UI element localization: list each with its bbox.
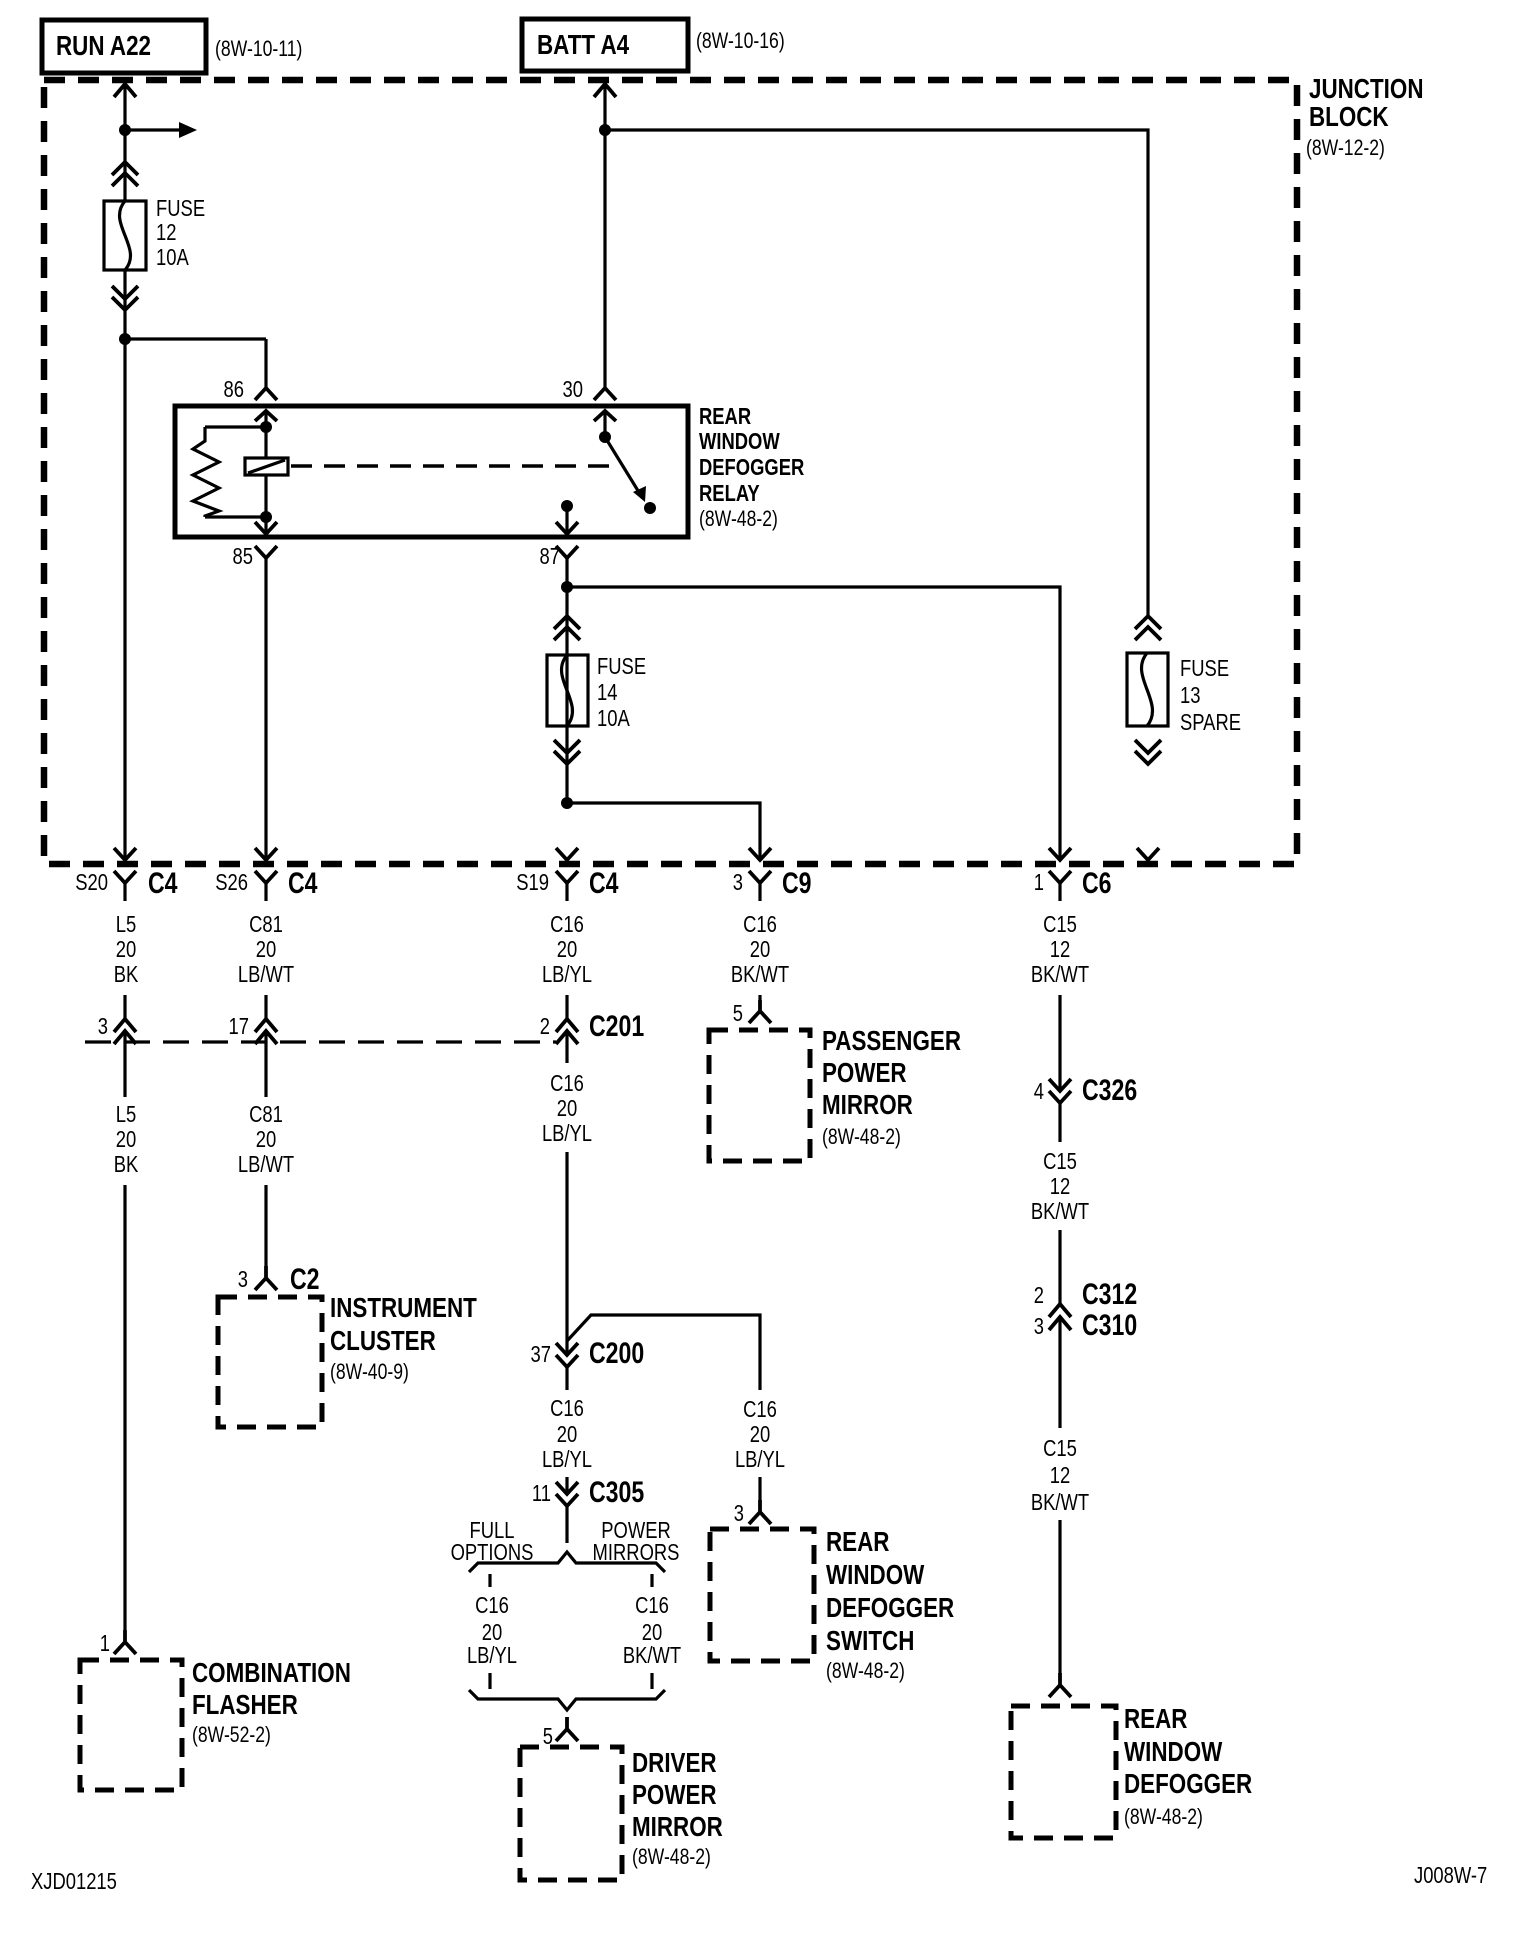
component box REAR WINDOW DEFOGGER SWITCH <box>710 1526 954 1683</box>
svg-text:C15: C15 <box>1043 911 1077 937</box>
svg-text:C15: C15 <box>1043 1148 1077 1174</box>
relay coil symbol <box>245 427 288 517</box>
connector C201 dashed interface line <box>85 1040 556 1043</box>
node fuse 12 output splice <box>119 333 131 345</box>
wire stub full options lower <box>488 1673 491 1689</box>
svg-text:85: 85 <box>233 543 254 569</box>
svg-text:(8W-40-9): (8W-40-9) <box>330 1359 409 1384</box>
svg-text:20: 20 <box>557 1095 578 1121</box>
svg-text:20: 20 <box>256 936 277 962</box>
svg-text:FLASHER: FLASHER <box>192 1689 298 1720</box>
wire stub full options upper <box>488 1574 491 1587</box>
svg-text:BK/WT: BK/WT <box>623 1642 681 1668</box>
connector C201 pin 2 column 3 <box>540 995 644 1063</box>
svg-text:LB/YL: LB/YL <box>542 1446 592 1472</box>
svg-text:C15: C15 <box>1043 1435 1077 1461</box>
feed box RUN A22 <box>42 20 302 73</box>
wire column 1 to combination flasher <box>123 1185 126 1630</box>
svg-text:2: 2 <box>540 1013 550 1039</box>
svg-text:C16: C16 <box>743 1396 777 1422</box>
wire label C16 20 LB/YL switch column <box>735 1396 785 1472</box>
relay switch arm <box>599 431 656 514</box>
wire column 5 to C312 <box>1058 1230 1061 1304</box>
svg-text:OPTIONS: OPTIONS <box>451 1539 534 1565</box>
wire column 5 to rear window defogger <box>1058 1520 1061 1673</box>
connector 5 at passenger power mirror <box>733 995 771 1026</box>
svg-text:BATT A4: BATT A4 <box>537 29 629 60</box>
wire label C16 20 LB/YL below C200 <box>542 1395 592 1472</box>
wire label C16 20 LB/YL column 3 <box>542 911 592 987</box>
wire option merge brace lower <box>469 1690 665 1710</box>
svg-text:(8W-10-16): (8W-10-16) <box>696 28 785 53</box>
connector chevrons above fuse 12 <box>112 162 138 186</box>
svg-text:10A: 10A <box>156 244 189 270</box>
svg-text:12: 12 <box>1050 936 1071 962</box>
svg-text:C6: C6 <box>1082 867 1112 900</box>
node fuse 14 output splice to C9 <box>561 797 760 860</box>
svg-text:12: 12 <box>1050 1462 1071 1488</box>
svg-text:J008W-7: J008W-7 <box>1414 1862 1487 1888</box>
svg-text:DRIVER: DRIVER <box>632 1747 717 1778</box>
relay coil resistor <box>193 427 266 517</box>
svg-text:C16: C16 <box>743 911 777 937</box>
svg-text:BK/WT: BK/WT <box>1031 1198 1089 1224</box>
svg-text:(8W-10-11): (8W-10-11) <box>215 36 302 61</box>
svg-text:C201: C201 <box>589 1010 644 1043</box>
connector C326 pin 4 <box>1034 1074 1137 1142</box>
svg-text:13: 13 <box>1180 682 1201 708</box>
pin 86 connector <box>224 376 278 427</box>
wire BATT splice to fuse 13 column <box>605 130 1148 615</box>
svg-text:INSTRUMENT: INSTRUMENT <box>330 1292 477 1323</box>
svg-text:LB/WT: LB/WT <box>238 961 294 987</box>
svg-text:3: 3 <box>734 1500 744 1526</box>
svg-text:C4: C4 <box>148 867 178 900</box>
wire label C16 20 LB/YL column 3 lower <box>542 1070 592 1146</box>
svg-text:FUSE: FUSE <box>597 653 646 679</box>
svg-text:POWER: POWER <box>822 1057 907 1088</box>
wire column 2 to instrument cluster <box>264 1185 267 1266</box>
svg-text:C310: C310 <box>1082 1309 1137 1342</box>
svg-text:L5: L5 <box>116 1101 137 1127</box>
svg-text:MIRRORS: MIRRORS <box>593 1539 680 1565</box>
connector S20 C4 at block edge <box>75 848 178 901</box>
svg-text:DEFOGGER: DEFOGGER <box>826 1592 954 1623</box>
svg-text:(8W-52-2): (8W-52-2) <box>192 1722 271 1747</box>
svg-text:(8W-48-2): (8W-48-2) <box>826 1658 905 1683</box>
svg-text:BK/WT: BK/WT <box>731 961 789 987</box>
wire label C81 20 LB/WT column 2 <box>238 911 294 987</box>
svg-text:LB/YL: LB/YL <box>542 961 592 987</box>
connector 3 C2 at instrument cluster <box>238 1263 320 1296</box>
wire fuse 13 to block edge <box>1137 848 1159 860</box>
footer diagram id XJD01215 <box>31 1868 117 1894</box>
wire label C16 20 LB/YL full options <box>467 1592 517 1668</box>
svg-text:5: 5 <box>733 1000 743 1026</box>
wire option split brace upper <box>469 1552 665 1572</box>
svg-text:DEFOGGER: DEFOGGER <box>699 454 805 480</box>
svg-text:C81: C81 <box>249 1101 283 1127</box>
component box COMBINATION FLASHER <box>80 1657 351 1790</box>
connector 1 C6 at block edge <box>1034 848 1112 901</box>
svg-text:C4: C4 <box>589 867 619 900</box>
svg-text:CLUSTER: CLUSTER <box>330 1325 436 1356</box>
svg-text:RUN A22: RUN A22 <box>56 30 151 61</box>
wire label L5 20 BK column 1 <box>114 911 139 987</box>
component box DRIVER POWER MIRROR <box>520 1747 723 1880</box>
svg-text:3: 3 <box>733 869 743 895</box>
wire label C15 12 BK/WT column 5 lower <box>1031 1435 1089 1515</box>
svg-text:SWITCH: SWITCH <box>826 1625 914 1656</box>
svg-text:L5: L5 <box>116 911 137 937</box>
svg-text:FUSE: FUSE <box>1180 655 1229 681</box>
svg-text:C16: C16 <box>635 1592 669 1618</box>
svg-text:20: 20 <box>116 936 137 962</box>
svg-text:PASSENGER: PASSENGER <box>822 1025 961 1056</box>
wire column 1 down to connector C4 <box>123 339 126 860</box>
wire branch to rear window defogger switch <box>567 1315 760 1390</box>
svg-text:REAR: REAR <box>1124 1703 1188 1734</box>
svg-text:(8W-12-2): (8W-12-2) <box>1306 135 1385 160</box>
svg-text:C9: C9 <box>782 867 812 900</box>
connector 3 C9 at block edge <box>733 848 812 901</box>
svg-text:MIRROR: MIRROR <box>632 1811 723 1842</box>
svg-text:C312: C312 <box>1082 1278 1137 1311</box>
svg-text:3: 3 <box>98 1013 108 1039</box>
svg-text:WINDOW: WINDOW <box>826 1559 925 1590</box>
wire label C81 20 LB/WT column 2 lower <box>238 1101 294 1177</box>
svg-text:LB/YL: LB/YL <box>735 1446 785 1472</box>
svg-text:DEFOGGER: DEFOGGER <box>1124 1768 1252 1799</box>
svg-text:C305: C305 <box>589 1476 644 1509</box>
connector 5 at driver power mirror <box>543 1717 578 1749</box>
wire splice to relay pin 86 <box>125 339 266 388</box>
svg-text:C16: C16 <box>475 1592 509 1618</box>
relay actuation dashed link <box>291 464 614 467</box>
junction block dashed border <box>44 80 1297 864</box>
svg-text:C326: C326 <box>1082 1074 1137 1107</box>
wire column 3 down to C200 <box>565 1152 568 1355</box>
pin 85 connector below relay <box>233 543 278 860</box>
connector 1 at combination flasher <box>100 1630 136 1656</box>
footer sheet id J008W-7 <box>1414 1862 1487 1888</box>
svg-text:20: 20 <box>557 936 578 962</box>
svg-text:20: 20 <box>750 936 771 962</box>
svg-text:12: 12 <box>1050 1173 1071 1199</box>
connector C305 pin 11 <box>532 1476 644 1543</box>
connector 3 at rear window defogger switch <box>734 1500 771 1526</box>
svg-text:C4: C4 <box>288 867 318 900</box>
wire switch column to connector <box>758 1477 761 1500</box>
relay box REAR WINDOW DEFOGGER RELAY <box>175 403 805 537</box>
svg-text:SPARE: SPARE <box>1180 709 1241 735</box>
node relay coil bottom <box>260 511 272 523</box>
svg-text:LB/YL: LB/YL <box>542 1120 592 1146</box>
svg-text:C200: C200 <box>589 1337 644 1370</box>
svg-text:3: 3 <box>1034 1313 1044 1339</box>
svg-text:S26: S26 <box>215 869 248 895</box>
svg-text:C2: C2 <box>290 1263 320 1296</box>
junction block label <box>1306 73 1424 160</box>
wire RUN A22 feed down <box>114 84 136 201</box>
svg-text:LB/YL: LB/YL <box>467 1642 517 1668</box>
component box PASSENGER POWER MIRROR <box>709 1025 961 1161</box>
fuse 13 spare <box>1127 653 1241 735</box>
svg-text:MIRROR: MIRROR <box>822 1089 913 1120</box>
svg-text:(8W-48-2): (8W-48-2) <box>822 1124 901 1149</box>
connector chevrons below fuse 13 <box>1135 740 1161 764</box>
svg-text:(8W-48-2): (8W-48-2) <box>632 1844 711 1869</box>
svg-text:11: 11 <box>532 1480 551 1506</box>
svg-text:S20: S20 <box>75 869 108 895</box>
svg-text:20: 20 <box>557 1421 578 1447</box>
svg-text:REAR: REAR <box>826 1526 890 1557</box>
wire label C16 20 BK/WT column 4 <box>731 911 789 987</box>
svg-text:BK: BK <box>114 961 139 987</box>
svg-text:10A: 10A <box>597 705 630 731</box>
svg-text:(8W-48-2): (8W-48-2) <box>699 506 778 531</box>
wire BATT A4 feed down to relay pin 30 <box>594 84 616 388</box>
svg-text:17: 17 <box>229 1013 250 1039</box>
connector C200 pin 37 <box>531 1337 645 1390</box>
wire stub power mirrors lower <box>650 1673 653 1689</box>
svg-text:WINDOW: WINDOW <box>1124 1736 1223 1767</box>
svg-text:C16: C16 <box>550 1070 584 1096</box>
connector chevrons below fuse 14 <box>554 740 580 764</box>
svg-text:1: 1 <box>1034 869 1044 895</box>
svg-text:JUNCTION: JUNCTION <box>1309 73 1424 104</box>
svg-text:XJD01215: XJD01215 <box>31 1868 117 1894</box>
wire label L5 20 BK column 1 lower <box>114 1101 139 1177</box>
connector S26 C4 at block edge <box>215 848 318 901</box>
pin 85 contact <box>255 517 277 534</box>
svg-text:14: 14 <box>597 679 618 705</box>
wire label C16 20 BK/WT power mirrors <box>623 1592 681 1668</box>
connector chevrons below fuse 12 <box>112 270 138 339</box>
pin 30 connector <box>563 376 617 437</box>
svg-text:C81: C81 <box>249 911 283 937</box>
svg-text:37: 37 <box>531 1341 552 1367</box>
feed box BATT A4 <box>522 19 785 71</box>
svg-text:RELAY: RELAY <box>699 480 760 506</box>
node BATT feed splice <box>599 124 611 136</box>
svg-text:BK: BK <box>114 1151 139 1177</box>
connector chevrons above fuse 13 <box>1135 616 1161 640</box>
pin 87 contact <box>556 500 578 534</box>
svg-text:S19: S19 <box>516 869 549 895</box>
svg-text:3: 3 <box>238 1266 248 1292</box>
svg-text:20: 20 <box>116 1126 137 1152</box>
svg-text:12: 12 <box>156 219 177 245</box>
svg-text:4: 4 <box>1034 1078 1044 1104</box>
label FULL OPTIONS <box>451 1517 534 1565</box>
svg-text:WINDOW: WINDOW <box>699 428 780 454</box>
node pin 87 splice to C6 <box>561 581 1060 860</box>
fuse 12 10A <box>104 195 205 270</box>
svg-text:2: 2 <box>1034 1282 1044 1308</box>
connector at rear window defogger <box>1049 1673 1071 1697</box>
fuse 14 10A <box>547 653 646 731</box>
node RUN feed splice with arrow <box>119 122 197 138</box>
svg-text:BLOCK: BLOCK <box>1309 101 1389 132</box>
svg-text:20: 20 <box>256 1126 277 1152</box>
node relay coil top <box>260 421 272 433</box>
svg-text:C16: C16 <box>550 911 584 937</box>
component box INSTRUMENT CLUSTER <box>218 1292 477 1427</box>
svg-text:C16: C16 <box>550 1395 584 1421</box>
wire label C15 12 BK/WT column 5 mid <box>1031 1148 1089 1224</box>
wire label C15 12 BK/WT column 5 <box>1031 911 1089 987</box>
connector chevrons above fuse 14 <box>554 616 580 640</box>
connector S19 C4 at block edge <box>516 848 619 901</box>
svg-text:20: 20 <box>750 1421 771 1447</box>
connector C312 C310 pins 2 3 <box>1034 1278 1137 1428</box>
svg-text:FUSE: FUSE <box>156 195 205 221</box>
label POWER MIRRORS <box>593 1517 680 1565</box>
svg-text:LB/WT: LB/WT <box>238 1151 294 1177</box>
svg-text:COMBINATION: COMBINATION <box>192 1657 351 1688</box>
svg-text:86: 86 <box>224 376 245 402</box>
pin 87 connector below relay <box>540 543 579 803</box>
connector C201 pin 3 column 1 <box>98 995 136 1097</box>
component box REAR WINDOW DEFOGGER <box>1011 1703 1252 1838</box>
svg-text:BK/WT: BK/WT <box>1031 1489 1089 1515</box>
svg-text:POWER: POWER <box>632 1779 717 1810</box>
svg-text:(8W-48-2): (8W-48-2) <box>1124 1804 1203 1829</box>
svg-text:30: 30 <box>563 376 584 402</box>
svg-text:REAR: REAR <box>699 403 751 429</box>
svg-text:BK/WT: BK/WT <box>1031 961 1089 987</box>
connector C201 pin 17 column 2 <box>229 995 278 1097</box>
wire column 5 down to C326 <box>1058 995 1061 1091</box>
svg-text:1: 1 <box>100 1630 110 1656</box>
wire stub power mirrors upper <box>650 1574 653 1587</box>
